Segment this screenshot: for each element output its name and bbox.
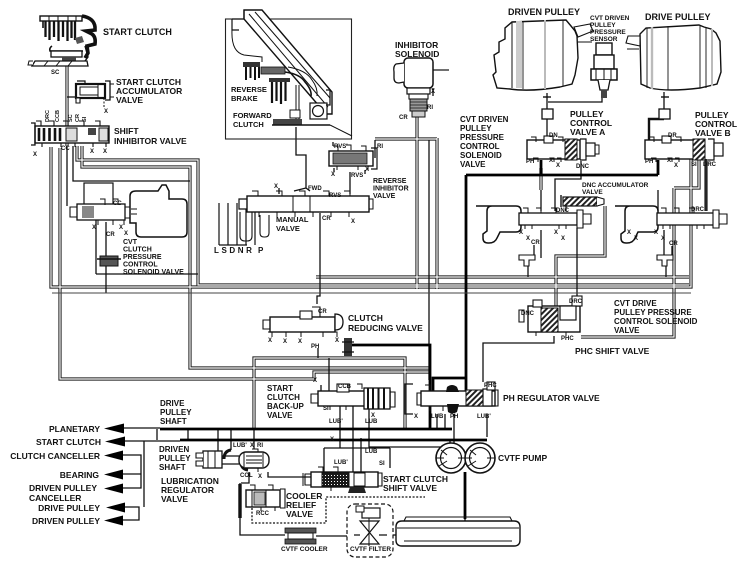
svg-text:DRIVEN PULLEY: DRIVEN PULLEY xyxy=(32,516,100,526)
svg-text:X: X xyxy=(92,225,96,231)
svg-text:DRC: DRC xyxy=(569,299,583,305)
svg-text:DRIVE PULLEY: DRIVE PULLEY xyxy=(38,503,100,513)
svg-text:X: X xyxy=(365,167,369,173)
svg-text:LUB: LUB xyxy=(365,419,378,425)
svg-text:DR: DR xyxy=(668,133,677,139)
svg-text:X: X xyxy=(313,378,317,384)
svg-text:DNC: DNC xyxy=(521,311,535,317)
svg-text:X: X xyxy=(634,236,638,242)
svg-text:CR: CR xyxy=(669,241,678,247)
svg-text:X: X xyxy=(667,158,671,164)
svg-text:X: X xyxy=(627,230,631,236)
svg-text:START CLUTCH: START CLUTCH xyxy=(36,437,101,447)
svg-text:DRIVEN PULLEY: DRIVEN PULLEY xyxy=(508,7,580,17)
svg-text:X: X xyxy=(561,236,565,242)
svg-text:SI: SI xyxy=(82,116,88,122)
svg-text:X: X xyxy=(274,184,278,190)
svg-text:LUB: LUB xyxy=(365,449,378,455)
svg-text:CR: CR xyxy=(322,216,331,222)
svg-text:CR: CR xyxy=(531,240,540,246)
svg-text:CLUTCH CANCELLER: CLUTCH CANCELLER xyxy=(10,451,100,461)
svg-text:SI: SI xyxy=(323,406,329,412)
svg-text:X: X xyxy=(554,230,558,236)
svg-text:X: X xyxy=(654,230,658,236)
svg-text:X: X xyxy=(331,172,335,178)
svg-text:X: X xyxy=(351,219,355,225)
svg-text:PH: PH xyxy=(526,159,534,165)
svg-text:LUB': LUB' xyxy=(477,414,491,420)
svg-text:X: X xyxy=(103,149,107,155)
svg-text:DN: DN xyxy=(549,133,558,139)
svg-text:RI: RI xyxy=(427,105,433,111)
svg-text:SC: SC xyxy=(51,70,60,76)
svg-text:CC: CC xyxy=(61,146,70,152)
svg-text:FWD: FWD xyxy=(308,186,322,192)
svg-text:PHC SHIFT VALVE: PHC SHIFT VALVE xyxy=(575,346,650,356)
svg-text:DRC: DRC xyxy=(691,207,705,213)
svg-text:RCC: RCC xyxy=(256,511,270,517)
svg-text:SI: SI xyxy=(379,461,385,467)
svg-text:PH: PH xyxy=(645,159,653,165)
svg-text:X: X xyxy=(431,89,435,95)
svg-text:LUB': LUB' xyxy=(233,443,247,449)
svg-text:X: X xyxy=(414,414,418,420)
svg-text:X: X xyxy=(549,158,553,164)
svg-text:X: X xyxy=(335,338,339,344)
svg-text:LUB': LUB' xyxy=(334,460,348,466)
svg-text:X: X xyxy=(258,474,262,480)
svg-text:PHC: PHC xyxy=(561,336,574,342)
svg-text:CVTF FILTER: CVTF FILTER xyxy=(350,546,391,553)
svg-text:CR: CR xyxy=(399,115,408,121)
svg-text:DNC: DNC xyxy=(576,164,590,170)
svg-text:PH REGULATOR VALVE: PH REGULATOR VALVE xyxy=(503,393,600,403)
svg-text:RVS': RVS' xyxy=(334,144,348,150)
svg-text:PH: PH xyxy=(450,414,458,420)
svg-text:LUB': LUB' xyxy=(329,419,343,425)
svg-text:RVS: RVS xyxy=(351,173,363,179)
svg-text:CC: CC xyxy=(113,201,122,207)
svg-text:X: X xyxy=(124,231,128,237)
svg-text:COL: COL xyxy=(240,473,253,479)
svg-text:CR: CR xyxy=(75,114,81,122)
svg-text:X: X xyxy=(526,236,530,242)
svg-text:BEARING: BEARING xyxy=(60,470,100,480)
svg-text:LUB: LUB xyxy=(431,414,444,420)
svg-text:X: X xyxy=(268,338,272,344)
svg-text:X: X xyxy=(330,437,334,443)
svg-text:RI: RI xyxy=(257,443,263,449)
svg-text:CR: CR xyxy=(106,232,115,238)
svg-text:X: X xyxy=(119,225,123,231)
svg-text:X: X xyxy=(104,109,108,115)
svg-text:CCB: CCB xyxy=(55,110,61,122)
svg-text:INHIBITORSOLENOID: INHIBITORSOLENOID xyxy=(395,40,439,59)
svg-text:X: X xyxy=(661,236,665,242)
svg-text:X: X xyxy=(519,230,523,236)
svg-text:P: P xyxy=(258,246,264,255)
svg-text:CCB: CCB xyxy=(338,384,352,390)
svg-text:PHC: PHC xyxy=(484,383,497,389)
svg-text:CVTF PUMP: CVTF PUMP xyxy=(498,453,547,463)
svg-text:DRIVE PULLEY: DRIVE PULLEY xyxy=(645,12,711,22)
svg-text:X: X xyxy=(90,149,94,155)
svg-text:DRC: DRC xyxy=(703,162,717,168)
svg-text:DRC: DRC xyxy=(45,110,51,122)
svg-text:X: X xyxy=(283,339,287,345)
svg-text:CVTF COOLER: CVTF COOLER xyxy=(281,546,328,553)
svg-text:PH: PH xyxy=(311,344,319,350)
svg-text:SC: SC xyxy=(68,114,74,122)
svg-text:RVS: RVS xyxy=(329,193,341,199)
svg-text:X: X xyxy=(33,152,37,158)
svg-text:X: X xyxy=(298,339,302,345)
svg-text:START CLUTCH: START CLUTCH xyxy=(103,27,172,37)
svg-text:X: X xyxy=(250,443,254,449)
svg-text:X: X xyxy=(674,163,678,169)
svg-text:DNC: DNC xyxy=(556,208,570,214)
svg-text:CR: CR xyxy=(318,309,327,315)
svg-text:X: X xyxy=(556,163,560,169)
svg-text:SI: SI xyxy=(691,162,697,168)
svg-text:PLANETARY: PLANETARY xyxy=(49,424,100,434)
svg-text:RI: RI xyxy=(377,144,383,150)
svg-text:LSDNR: LSDNR xyxy=(214,246,255,255)
